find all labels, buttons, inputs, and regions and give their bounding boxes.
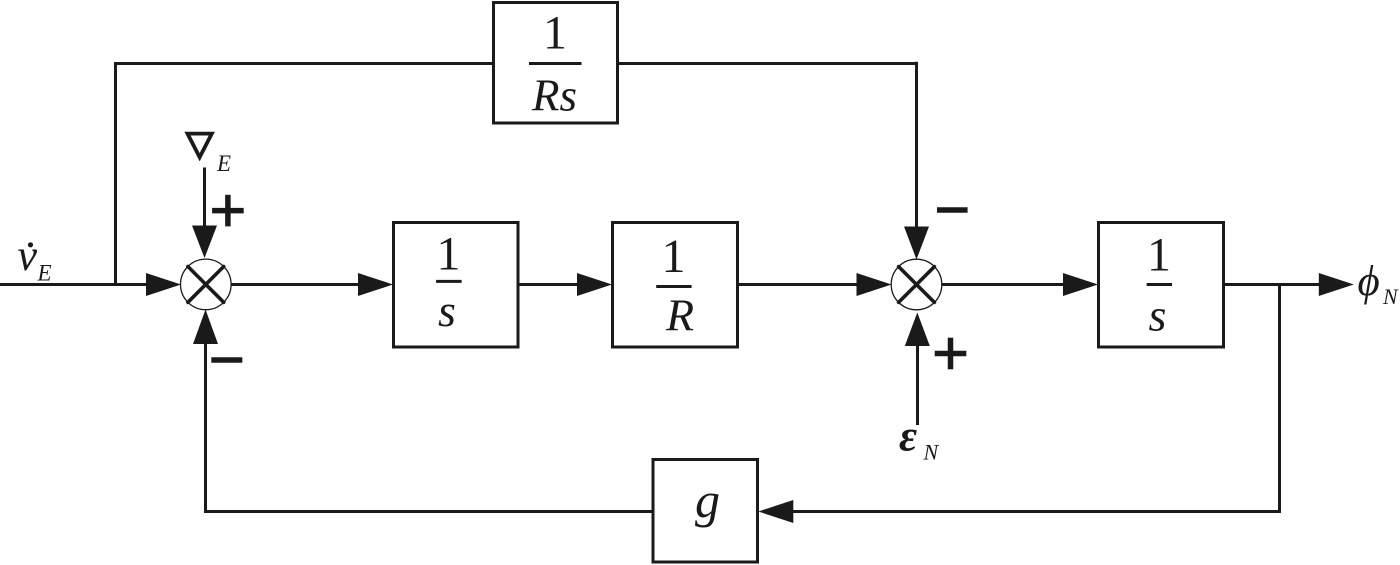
arrowhead up into sum 1 bottom — [193, 310, 218, 345]
wire: sum 2 to block 1/s right — [942, 283, 1065, 286]
arrowhead into summing junction 1 — [146, 273, 181, 296]
svg-text:v: v — [18, 231, 38, 280]
wire: branch up from input to feedforward — [114, 62, 117, 286]
node: input label v-dot E — [18, 231, 52, 285]
wire: output line — [1224, 283, 1320, 286]
svg-text:g: g — [695, 472, 720, 528]
svg-text:1: 1 — [1147, 229, 1171, 282]
svg-text:N: N — [1382, 284, 1399, 309]
arrowhead into sum 2 — [857, 273, 892, 296]
node: output label phi N — [1358, 258, 1400, 309]
node: epsilon N label — [899, 412, 940, 465]
svg-text:N: N — [923, 440, 940, 465]
arrowhead output — [1319, 273, 1354, 296]
summing junction 2 — [891, 259, 942, 310]
arrowhead down into sum 2 — [904, 227, 929, 260]
block 1/Rs — [494, 3, 618, 124]
svg-text:s: s — [438, 285, 456, 336]
block g — [653, 460, 758, 563]
plus sign at sum 1 top input — [212, 195, 244, 227]
arrowhead into right block 1/s — [1063, 273, 1098, 296]
block 1/s (first integrator) — [394, 223, 519, 348]
svg-text:1: 1 — [662, 230, 686, 283]
wire: top feedforward line right segment — [618, 62, 919, 65]
svg-text:ϕ: ϕ — [1358, 258, 1380, 305]
wire: down into summing junction 2 — [915, 62, 918, 228]
svg-text:Rs: Rs — [531, 70, 577, 120]
wire: block 1/R to sum 2 — [738, 283, 858, 286]
wire: epsilon N up to sum 2 — [916, 345, 919, 425]
svg-text:1: 1 — [543, 6, 567, 59]
svg-text:E: E — [216, 151, 231, 176]
summing junction 1 — [181, 259, 232, 310]
svg-text:R: R — [665, 289, 694, 340]
arrowhead into g block — [758, 500, 793, 523]
svg-text:ε: ε — [899, 412, 917, 461]
arrowhead up into sum 2 bottom — [905, 313, 930, 347]
block 1/R — [613, 223, 738, 348]
svg-text:E: E — [37, 260, 52, 285]
wire: input vE line — [0, 283, 147, 286]
arrowhead into block 1/R — [577, 273, 612, 296]
svg-text:s: s — [1149, 289, 1167, 340]
wire: output branch down — [1278, 285, 1281, 514]
wire: sum 1 to block 1/s — [231, 283, 359, 286]
wire: top feedforward line left segment — [114, 62, 494, 65]
wire: bottom feedback line left segment — [204, 510, 653, 513]
arrowhead down into sum 1 — [192, 226, 217, 259]
arrowhead into block 1/s — [358, 273, 393, 296]
plus sign at sum 2 bottom input — [935, 338, 967, 370]
node: nabla E disturbance label — [188, 134, 232, 176]
minus sign at sum 2 top — [937, 207, 968, 213]
wire: bottom feedback line right segment — [792, 510, 1281, 513]
wire: feedback up into sum 1 — [204, 343, 207, 513]
wire: nabla down to sum 1 — [203, 168, 206, 228]
svg-text:1: 1 — [437, 228, 461, 281]
wire: block 1/s to block 1/R — [518, 283, 578, 286]
minus sign at sum 1 bottom input — [211, 357, 242, 363]
block 1/s (second integrator) — [1099, 223, 1224, 348]
